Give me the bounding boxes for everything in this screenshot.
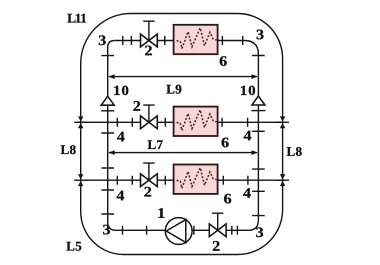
label 10 (left check valve) <box>114 86 128 95</box>
label L7 <box>148 140 163 149</box>
valve 2 (row 2) <box>141 105 158 129</box>
wire: row-2 horizontal pipe <box>81 121 283 123</box>
label 2 (row 2 valve) <box>133 101 140 111</box>
heat exchanger 6 (row 3) <box>174 165 218 194</box>
label 2 (row 1 valve) <box>145 46 152 56</box>
junction arrows and tick (right loop, row 2) <box>276 116 289 128</box>
tick marks on row-1 pipe <box>123 36 243 45</box>
check valve 10 (right header) <box>251 96 265 111</box>
tick marks on right header <box>252 56 265 216</box>
label L8 (left) <box>61 145 76 154</box>
wire: row-3 horizontal pipe <box>81 179 283 181</box>
label L11 <box>67 14 86 23</box>
valve 2 (row 1) <box>141 21 158 47</box>
label 3 (row 1 left) <box>99 35 106 45</box>
label L9 <box>166 85 181 94</box>
label 3 (bottom left) <box>103 225 110 235</box>
label 3 (bottom right) <box>256 227 263 237</box>
label 2 (row 3 valve) <box>144 187 151 197</box>
label 6 (row 3 exchanger) <box>224 194 231 204</box>
valve 2 (bottom row) <box>209 213 226 237</box>
label 6 (row 1 exchanger) <box>220 56 227 66</box>
tick marks on bottom pipe <box>123 226 238 235</box>
label 10 (right check valve) <box>241 86 255 95</box>
tick marks on row-3 pipe <box>117 176 248 185</box>
label 4 (row 3 left) <box>117 191 125 201</box>
label 3 (row 1 right) <box>257 30 264 40</box>
wire: right header vertical pipe <box>245 41 259 231</box>
label 4 (row 3 right) <box>243 188 251 198</box>
dimension line L9 with outward arrows <box>108 74 257 79</box>
junction arrows and tick (left loop, row 2) <box>74 116 87 128</box>
junction arrows and tick (left loop, row 3) <box>74 174 87 186</box>
label L8 (right) <box>287 147 302 156</box>
tick marks on left header <box>101 56 114 214</box>
wire: left header vertical pipe <box>108 41 116 231</box>
label 6 (row 2 exchanger) <box>222 138 229 148</box>
dimension line L7 with outward arrows <box>108 150 257 155</box>
label 1 (pump) <box>158 208 164 218</box>
wire: row-1 horizontal pipe <box>115 40 245 42</box>
tick marks on row-2 pipe <box>117 118 247 127</box>
label L5 <box>66 242 81 251</box>
label 4 (row 2 right) <box>244 131 252 141</box>
valve 2 (row 3) <box>141 163 158 187</box>
junction arrows and tick (right loop, row 3) <box>276 174 289 186</box>
heat exchanger 6 (row 2) <box>174 107 218 136</box>
check valve 10 (left header) <box>101 96 114 111</box>
wire: bottom pipe run <box>116 229 249 231</box>
pump 1 <box>165 218 192 245</box>
label 4 (row 2 left) <box>117 132 125 142</box>
label 2 (bottom valve) <box>213 241 220 251</box>
wire: outer loop pipe (lines L11 top, L8 sides, L5 bottom) <box>81 14 283 255</box>
heat exchanger 6 (row 1) <box>174 25 218 54</box>
